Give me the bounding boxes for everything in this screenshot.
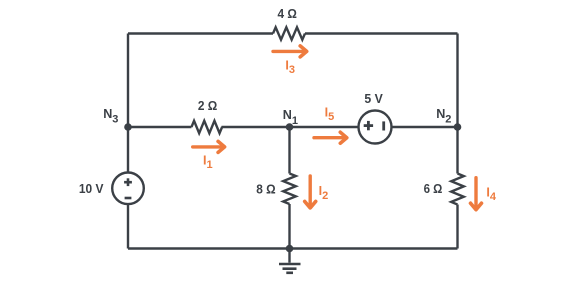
svg-text:10 V: 10 V (79, 182, 104, 196)
svg-text:5 V: 5 V (364, 92, 383, 106)
svg-text:2 Ω: 2 Ω (198, 99, 217, 113)
svg-text:6 Ω: 6 Ω (424, 182, 443, 196)
svg-text:4 Ω: 4 Ω (278, 7, 297, 21)
svg-text:8 Ω: 8 Ω (256, 182, 275, 196)
